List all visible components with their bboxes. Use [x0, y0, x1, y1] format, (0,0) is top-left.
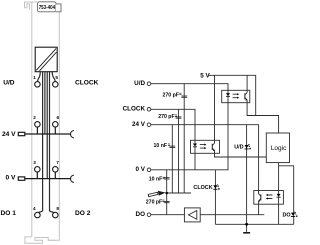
stem contact 7	[54, 172, 56, 179]
data contacts / marking field box	[35, 47, 57, 71]
svg-text:0 V: 0 V	[136, 166, 146, 173]
svg-text:U/D: U/D	[234, 145, 243, 151]
wire filter common bus	[167, 192, 191, 194]
svg-text:CLOCK: CLOCK	[75, 80, 99, 87]
marking field diagonal 2	[40, 52, 57, 71]
svg-text:0 V: 0 V	[6, 175, 16, 182]
capacitor C4 plates (10nF 0V)	[164, 176, 170, 179]
wire to contact 1	[38, 72, 41, 82]
0V plug symbol	[18, 177, 25, 180]
wire U1 LED cathode to 0V	[227, 103, 229, 170]
24V plug symbol	[18, 132, 25, 135]
junction node ground	[245, 223, 248, 226]
wire to contact 4 (vertical run)	[42, 72, 44, 211]
wire U/D status LED branch	[246, 125, 248, 225]
subscript mark CLOCK LED	[218, 188, 220, 189]
capacitor C1 plates (270pF U/D)	[181, 95, 187, 98]
wire capacitor C4/C5 stub	[166, 170, 168, 215]
svg-text:1: 1	[33, 75, 36, 80]
contact 2	[35, 122, 41, 128]
0V rail wire	[25, 178, 70, 180]
svg-text:DO: DO	[283, 212, 291, 218]
output driver (buffer)	[184, 208, 200, 222]
svg-text:CLOCK: CLOCK	[123, 106, 146, 113]
terminal 0V	[147, 168, 151, 172]
wire 5V to U2 collector	[214, 75, 216, 140]
wire Logic to U3 LED	[278, 162, 280, 190]
svg-text:270 pF: 270 pF	[158, 114, 174, 120]
contact 8	[53, 212, 59, 218]
terminal DO	[147, 213, 151, 217]
module foot	[25, 237, 59, 243]
svg-text:7: 7	[56, 160, 59, 165]
terminal CLOCK	[147, 108, 151, 112]
terminal U/D	[147, 82, 151, 86]
type label box	[38, 2, 57, 12]
24V rail wire	[25, 133, 70, 135]
svg-text:DO 2: DO 2	[75, 210, 91, 217]
stem contact 3	[36, 172, 38, 179]
hook into contact 4	[39, 210, 43, 213]
wire 0V	[151, 169, 229, 171]
svg-text:2: 2	[33, 115, 36, 120]
wire DO to driver	[151, 214, 185, 216]
wire to contact 8 (vertical run)	[49, 72, 51, 211]
wire capacitor C3 stub	[171, 125, 173, 193]
contact 4	[35, 212, 41, 218]
wire chassis stub	[246, 224, 248, 232]
capacitor C2 plates (270pF CLOCK)	[176, 116, 182, 119]
wire U3 LED cathode to bus	[278, 204, 280, 224]
wire to 24V rail	[44, 72, 46, 134]
svg-text:10 nF: 10 nF	[149, 177, 163, 183]
type label box tab	[56, 4, 61, 12]
module housing right edge	[58, 13, 60, 237]
node A pointer arrow	[148, 191, 165, 197]
contact 3	[35, 167, 41, 173]
status LED DO	[291, 212, 296, 217]
svg-text:270 pF: 270 pF	[163, 93, 179, 99]
DIN-rail latch	[25, 2, 32, 10]
svg-text:DO 1: DO 1	[1, 210, 17, 217]
wire U2 LED cathode to 0V	[194, 153, 196, 170]
svg-text:U/D: U/D	[134, 80, 145, 87]
cap glyph C5	[162, 199, 164, 202]
stem contact 6	[54, 127, 56, 134]
status LED CLOCK	[213, 185, 219, 190]
svg-text:3: 3	[33, 160, 36, 165]
svg-text:5: 5	[55, 75, 58, 80]
optocoupler U1 (U/D input)	[222, 90, 250, 102]
svg-text:Logic: Logic	[271, 145, 287, 152]
wire ground bus	[215, 223, 293, 225]
module foot step	[48, 239, 55, 241]
cap glyph C2	[175, 114, 177, 117]
contact 1	[35, 82, 41, 88]
svg-text:5 V: 5 V	[200, 72, 210, 79]
svg-text:753-404: 753-404	[39, 5, 55, 11]
cap glyph C4	[163, 176, 165, 179]
wire CLOCK status LED branch	[214, 170, 216, 225]
optocoupler U3 (DO output, mirrored)	[254, 191, 284, 205]
wire 24V to opto U3 collector	[151, 125, 259, 194]
svg-text:6: 6	[57, 115, 60, 120]
wire to contact 5	[52, 72, 55, 82]
junction node A	[165, 192, 168, 195]
wire capacitor C1 stub	[183, 84, 185, 193]
module housing left/top edge	[32, 2, 37, 237]
svg-text:4: 4	[33, 206, 36, 211]
cap glyph C3	[168, 143, 170, 146]
svg-text:24 V: 24 V	[2, 131, 16, 138]
wire 5V rail	[209, 75, 256, 115]
hook into contact 8	[50, 210, 54, 213]
svg-text:U/D: U/D	[3, 80, 15, 87]
capacitor C5 plates (270pF DO)	[164, 200, 170, 203]
wire CLOCK to opto U2 LED	[151, 109, 195, 140]
subscript mark DO LED	[296, 216, 298, 217]
contact 5	[53, 82, 59, 88]
svg-text:8: 8	[56, 206, 59, 211]
svg-text:270 pF: 270 pF	[146, 199, 162, 205]
svg-text:DO: DO	[136, 211, 146, 218]
marking field diagonal 1	[36, 48, 56, 70]
optocoupler U2 (CLOCK input)	[191, 140, 220, 153]
ground (chassis)	[243, 232, 250, 234]
svg-text:24 V: 24 V	[132, 121, 146, 128]
svg-text:10 nF: 10 nF	[154, 143, 168, 149]
stem contact 2	[36, 127, 38, 134]
0V rail socket arc	[71, 175, 74, 182]
status LED U/D	[245, 144, 251, 149]
24V rail socket arc	[71, 131, 74, 138]
wire U/D to opto U1 LED	[151, 84, 228, 91]
subscript mark U/D LED	[249, 148, 251, 149]
wire 5V to U1 collector	[246, 75, 248, 90]
wire U3 emitter to driver	[200, 204, 264, 215]
wire Logic to DO status LED	[279, 166, 294, 225]
terminal 24V	[147, 123, 151, 127]
contact 6	[53, 122, 59, 128]
svg-text:CLOCK: CLOCK	[193, 185, 212, 191]
cap glyph C1	[179, 92, 181, 95]
capacitor C3 plates (10nF 24V)	[169, 145, 175, 148]
wire capacitor C2 stub	[178, 109, 180, 193]
Logic block	[266, 133, 289, 163]
wire U1 emitter to Logic	[247, 103, 279, 133]
wire to 0V rail	[46, 72, 48, 179]
contact 7	[53, 167, 59, 173]
wire U2 emitter to Logic	[215, 153, 267, 157]
